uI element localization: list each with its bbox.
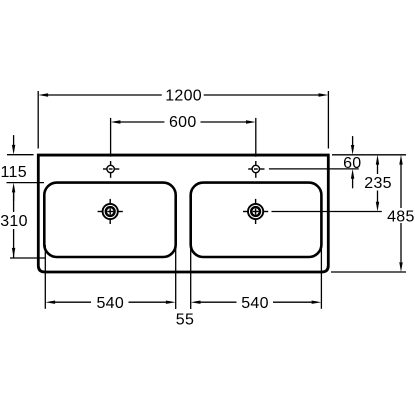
svg-text:235: 235 bbox=[364, 175, 392, 192]
dimension 55 center gap bbox=[176, 312, 194, 329]
svg-text:1200: 1200 bbox=[165, 88, 202, 105]
svg-text:60: 60 bbox=[343, 155, 361, 172]
svg-text:485: 485 bbox=[387, 208, 415, 225]
dimension 310 left bbox=[10, 192, 45, 258]
tap hole right bbox=[248, 161, 264, 178]
sink outer outline bbox=[38, 155, 328, 272]
dimension 1200 top bbox=[38, 91, 328, 149]
svg-text:540: 540 bbox=[241, 295, 269, 312]
dimension 540 bottom left bbox=[45, 245, 175, 309]
dimension 115 left bbox=[7, 135, 45, 201]
dimension 60 right bbox=[269, 136, 406, 188]
dimension 235 right bbox=[272, 165, 382, 212]
svg-text:600: 600 bbox=[169, 114, 197, 131]
tap hole left bbox=[103, 161, 119, 178]
dimension 540 bottom right bbox=[191, 245, 322, 309]
dimension 485 right bbox=[331, 165, 406, 273]
svg-text:115: 115 bbox=[0, 164, 26, 181]
left basin bbox=[44, 183, 175, 257]
svg-text:55: 55 bbox=[176, 312, 194, 329]
right basin bbox=[191, 183, 322, 257]
drain hole left bbox=[98, 199, 123, 224]
drain hole right bbox=[243, 199, 268, 224]
svg-text:310: 310 bbox=[0, 213, 28, 230]
svg-text:540: 540 bbox=[96, 295, 124, 312]
dimension 600 tap holes bbox=[111, 118, 256, 157]
